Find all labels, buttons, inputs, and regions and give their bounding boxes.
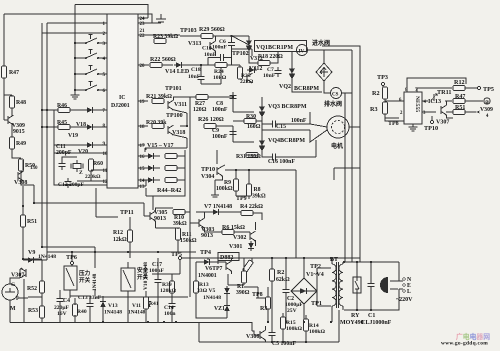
svg-text:R53: R53: [28, 308, 38, 314]
junction dot 37: [282, 341, 284, 343]
svg-text:R44–R42: R44–R42: [157, 187, 181, 194]
wire RY leads: [356, 262, 358, 310]
resistor R47b: [453, 99, 465, 104]
svg-text:R48: R48: [16, 100, 26, 106]
diode V7: [211, 209, 221, 215]
wire pin8 row: [42, 126, 107, 128]
resistor R3a: [383, 102, 388, 114]
transistor V309: [8, 115, 14, 125]
svg-text:R26 120Ω: R26 120Ω: [198, 117, 224, 123]
wire left v308 net: [22, 160, 24, 206]
svg-text:R4 22kΩ: R4 22kΩ: [240, 204, 263, 210]
wire R2a down: [384, 99, 386, 103]
diode V15: [146, 153, 156, 159]
svg-text:TP5: TP5: [483, 86, 494, 93]
svg-text:R12: R12: [454, 79, 465, 86]
svg-text:VZ1: VZ1: [214, 306, 225, 312]
junction dot 14: [356, 309, 358, 311]
svg-text:TP103: TP103: [180, 28, 197, 34]
svg-text:V302: V302: [233, 235, 246, 241]
terminal N: [403, 278, 406, 281]
indicator CS circle: [331, 88, 342, 99]
terminal L: [403, 290, 406, 293]
svg-text:TP4: TP4: [200, 249, 211, 256]
transformer BT: [332, 264, 343, 306]
resistor R44: [165, 154, 177, 159]
svg-text:C16 100nF: C16 100nF: [268, 159, 295, 165]
wire C5 lead: [271, 322, 273, 342]
transistor V311: [168, 100, 174, 110]
wire TP6 net: [70, 252, 72, 298]
resistor R22: [150, 63, 162, 68]
svg-text:C1: C1: [368, 313, 375, 319]
capacitor C4: [56, 295, 63, 305]
svg-text:39kΩ: 39kΩ: [252, 194, 266, 200]
junction dot 19: [127, 251, 129, 253]
svg-text:V14 LED: V14 LED: [165, 69, 190, 75]
ground V304: [211, 193, 219, 197]
resistor R60: [89, 159, 94, 171]
wire left rail: [3, 14, 5, 120]
wire V9 row: [23, 252, 47, 260]
junction dot 16: [330, 321, 332, 323]
svg-text:VQ3 BCR8PM: VQ3 BCR8PM: [268, 104, 307, 110]
wire xfmr net: [332, 258, 343, 322]
svg-text:IV: IV: [299, 50, 305, 55]
svg-text:V312: V312: [250, 56, 263, 62]
resistor R47: [2, 66, 7, 78]
wire rail x42: [42, 23, 95, 247]
svg-text:TP11: TP11: [120, 209, 134, 216]
wire V309 base tap: [4, 119, 8, 121]
wire pin22 row: [138, 34, 180, 36]
wire pin1 lead: [47, 22, 107, 24]
svg-text:TP6: TP6: [66, 254, 77, 261]
transistor V308: [18, 171, 24, 181]
svg-text:10nF: 10nF: [263, 73, 276, 79]
wire motor right: [349, 126, 360, 128]
svg-text:1N4148: 1N4148: [104, 310, 122, 316]
junction dot 23: [248, 169, 250, 171]
resistor R30: [244, 119, 256, 124]
svg-text:Z: Z: [79, 170, 83, 176]
resistor R15: [281, 317, 286, 329]
wire cap to z: [62, 157, 77, 160]
svg-text:TP102: TP102: [232, 51, 249, 57]
wire pin2 lead: [42, 32, 107, 34]
junction dot 40: [22, 205, 24, 207]
mains plug: [380, 277, 398, 301]
svg-text:TP9: TP9: [236, 196, 247, 202]
wire bottom rail2: [199, 310, 339, 342]
wire diode16 out: [156, 155, 160, 157]
svg-text:V7 1N4148: V7 1N4148: [204, 204, 232, 210]
capacitor C11a: [58, 160, 65, 170]
junction dot 18: [94, 251, 96, 253]
diode V301: [248, 241, 254, 251]
wire pin9 row: [54, 144, 107, 146]
resistor R18: [258, 61, 270, 66]
wire S4 taps: [75, 89, 107, 91]
diode V9: [26, 257, 36, 263]
wire res16 out: [177, 155, 185, 157]
resistor R24: [215, 63, 227, 68]
resistor R27: [196, 95, 208, 100]
ground of switch ladder: [71, 92, 80, 99]
junction dot 26: [232, 96, 234, 98]
resistor R12: [453, 86, 465, 91]
resistor R3m: [266, 297, 271, 309]
svg-text:M: M: [10, 306, 16, 312]
wire pin7 row: [42, 109, 107, 111]
junction dot 39: [271, 341, 273, 343]
wire R8 net: [236, 170, 249, 199]
svg-text:R60: R60: [93, 161, 103, 167]
wire V7 row: [196, 212, 262, 220]
capacitor C8: [229, 92, 236, 102]
svg-text:V19: V19: [68, 133, 78, 139]
wire rail x47: [47, 23, 196, 252]
transistor V312b: [247, 73, 253, 83]
wire rail x190: [146, 97, 190, 215]
wire R52 net: [28, 260, 42, 322]
diode V19: [85, 124, 95, 130]
wire power top rail: [182, 257, 360, 259]
capacitor C6: [228, 39, 235, 49]
junction dot 22: [235, 169, 237, 171]
wire S2 taps: [75, 57, 107, 59]
wire V304 net: [215, 150, 296, 258]
svg-text:R2: R2: [372, 90, 380, 97]
wire pin23 lead: [138, 22, 161, 24]
wire TP5m stub: [23, 259, 180, 274]
wire diode14 out: [156, 179, 160, 181]
wire R3a net: [385, 101, 404, 121]
svg-text:1N4148: 1N4148: [128, 310, 146, 316]
junction dot 5: [74, 89, 76, 91]
wire IV to rail: [308, 49, 353, 51]
diode V11: [145, 299, 151, 309]
wire R47b out: [465, 100, 483, 102]
wire R47 to R48: [4, 95, 12, 97]
svg-text:R52: R52: [27, 286, 37, 292]
wire V311 c: [174, 97, 197, 126]
wire R29 row: [180, 36, 249, 38]
test point TP6: [70, 261, 73, 264]
wire pin13 row: [138, 180, 146, 186]
wire rail x34: [34, 185, 144, 216]
wire R9 leads: [235, 170, 237, 196]
svg-text:R51: R51: [455, 105, 465, 111]
wire bridge net: [286, 258, 331, 322]
switch S4: [85, 82, 99, 92]
svg-text:200pF: 200pF: [56, 150, 72, 156]
capacitor C18: [197, 73, 204, 83]
resistor R42: [165, 178, 177, 183]
wire pin15 row: [138, 167, 146, 169]
wire pin12 row: [77, 180, 107, 182]
capacitor C5: [268, 329, 275, 339]
svg-text:TP10: TP10: [424, 125, 438, 132]
svg-text:排水阀: 排水阀: [324, 100, 342, 108]
wire V309 emitter: [11, 108, 13, 138]
wire res15 out: [177, 167, 185, 169]
wire rail x352: [351, 50, 353, 262]
wire v12 col: [94, 247, 96, 296]
wire pin17 row: [138, 144, 145, 146]
transistor V304: [217, 166, 223, 176]
capacitor C9: [229, 128, 236, 138]
wire diamond up: [308, 50, 325, 63]
varistor RY: [353, 277, 361, 293]
capacitor C10: [217, 54, 227, 61]
wire pin24 lead: [138, 17, 148, 19]
junction dot 15: [370, 309, 372, 311]
resistor R2m: [270, 269, 275, 281]
resistor R41: [144, 297, 149, 309]
junction dot 13: [370, 261, 372, 263]
svg-text:100nF: 100nF: [212, 107, 228, 113]
svg-text:C18: C18: [191, 67, 201, 73]
triac VQ4: [259, 138, 265, 154]
wire pin10 row: [54, 152, 107, 154]
svg-text:100kΩ: 100kΩ: [309, 329, 326, 335]
triac VQ1: [246, 38, 252, 54]
junction dot 11: [330, 257, 332, 259]
wire mid rail x190 low: [189, 252, 191, 297]
svg-text:VQ2: VQ2: [279, 84, 291, 90]
wire pin11 row: [91, 170, 107, 181]
wire pin20 row: [138, 64, 149, 66]
bridge rectifier V1~V4: [291, 278, 317, 304]
svg-text:G: G: [11, 282, 16, 288]
svg-text:R23 39kΩ: R23 39kΩ: [153, 34, 178, 40]
svg-text:TP10: TP10: [201, 166, 215, 173]
wire R50 down: [21, 171, 34, 185]
junction dot 30: [102, 321, 104, 323]
wire G net: [10, 269, 28, 323]
svg-text:100n: 100n: [164, 311, 176, 317]
capacitor C14: [168, 300, 175, 310]
svg-text:R47: R47: [455, 94, 465, 100]
capacitor C12: [64, 178, 71, 188]
junction dot 10: [271, 257, 273, 259]
wire VQ3 net: [233, 97, 310, 130]
transistor D882: [226, 261, 232, 271]
svg-text:390Ω: 390Ω: [236, 290, 250, 296]
junction dot 28: [41, 109, 43, 111]
capacitor C15: [269, 120, 279, 127]
svg-text:TP101: TP101: [165, 86, 182, 92]
wire R24 net: [184, 65, 240, 84]
junction dot 8: [303, 257, 305, 259]
resistor R49: [10, 137, 15, 149]
test point TP3: [381, 82, 384, 85]
resistor R46: [58, 108, 70, 113]
thermistor TR11: [431, 94, 437, 100]
capacitor C16: [269, 153, 279, 160]
junction dot 17: [343, 261, 345, 263]
svg-text:9013: 9013: [201, 233, 213, 239]
svg-text:R51: R51: [27, 219, 37, 225]
diode V14 LED: [174, 62, 184, 68]
svg-text:VQ1BCR1PM: VQ1BCR1PM: [256, 45, 293, 51]
svg-text:IC13: IC13: [428, 98, 441, 105]
wire pin19 row: [138, 100, 148, 102]
svg-text:R12: R12: [113, 230, 123, 236]
svg-text:220kΩ: 220kΩ: [85, 174, 101, 180]
wire pin14 row: [138, 179, 146, 181]
wire TP3 down: [382, 86, 384, 88]
junction dot 6: [22, 258, 24, 260]
svg-text:V1~V4: V1~V4: [306, 272, 324, 278]
wire R26 out: [145, 126, 233, 148]
junction dot 34: [267, 321, 269, 323]
svg-text:V313: V313: [188, 41, 201, 47]
diode VZ1: [224, 303, 230, 313]
svg-text:100kΩ: 100kΩ: [216, 186, 233, 192]
svg-text:VQ4BCR8PM: VQ4BCR8PM: [268, 138, 305, 144]
safety switch blade: [123, 270, 131, 288]
junction dot 3: [74, 57, 76, 59]
resistor R2a: [383, 87, 388, 99]
svg-text:RY: RY: [351, 313, 360, 319]
diode V6: [202, 259, 212, 265]
transistor V318: [168, 125, 174, 135]
svg-text:R3: R3: [370, 106, 378, 113]
wire S3 taps: [75, 73, 107, 75]
resistor R12m: [128, 230, 133, 242]
resistor R45: [58, 125, 70, 130]
resistor R51b: [453, 110, 465, 115]
wire mid long1: [95, 188, 97, 217]
svg-text:39kΩ: 39kΩ: [173, 221, 187, 227]
svg-text:TP8: TP8: [252, 292, 263, 298]
frame valve box: [322, 46, 360, 180]
switch S3: [85, 66, 99, 76]
junction dot 29: [41, 126, 43, 128]
junction dot 2: [74, 42, 76, 44]
drain valve actuator diamond: [316, 63, 332, 81]
resistor R8: [247, 184, 252, 196]
diode V13: [100, 299, 106, 309]
junction dot 7: [41, 246, 43, 248]
safety switch box: [121, 268, 135, 291]
junction dot 0: [46, 109, 48, 111]
wire V305 net: [144, 208, 190, 252]
terminal V309 arrow: [476, 111, 480, 114]
svg-text:120kΩ: 120kΩ: [160, 288, 177, 294]
wire safety nets: [128, 258, 180, 322]
svg-text:R47: R47: [9, 70, 19, 76]
wire top rail upper: [75, 5, 148, 19]
junction dot 9: [285, 257, 287, 259]
resistor R53: [40, 306, 45, 318]
diode V17: [146, 177, 156, 183]
svg-text:R3: R3: [260, 306, 267, 312]
svg-text:V311: V311: [174, 102, 187, 108]
svg-text:开关: 开关: [79, 276, 91, 284]
transistor V307: [21, 268, 27, 278]
svg-text:62kΩ: 62kΩ: [276, 277, 290, 283]
svg-text:R6 15kΩ: R6 15kΩ: [222, 225, 245, 231]
wire R12m down: [129, 217, 131, 258]
svg-text:TP100: TP100: [166, 113, 183, 119]
svg-text:150kΩ: 150kΩ: [180, 238, 197, 244]
diode V20: [85, 142, 95, 148]
svg-text:12kΩ: 12kΩ: [113, 237, 127, 243]
box VQ1 label: [255, 41, 307, 52]
resistor R9: [234, 179, 239, 191]
wire VQ2 net: [292, 52, 322, 92]
resistor R50: [19, 159, 24, 171]
svg-text:V11: V11: [132, 303, 141, 309]
wire V303 net: [190, 212, 256, 246]
svg-text:R30: R30: [246, 114, 256, 120]
op-amp U1 IC DJ2001 body: [107, 14, 138, 188]
svg-text:TP3: TP3: [377, 74, 388, 81]
transistor V305: [150, 211, 156, 221]
triac VQ2: [289, 66, 295, 82]
crystal Z: [71, 160, 83, 172]
IC NE555 body: [404, 92, 422, 124]
svg-text:C4: C4: [63, 298, 70, 304]
pressure switch blade: [66, 268, 74, 286]
wire motor left: [310, 112, 327, 157]
wire R22 to V14: [162, 64, 173, 66]
wire pin18 row: [138, 125, 148, 127]
svg-text:V20: V20: [78, 149, 88, 155]
svg-text:160Ω: 160Ω: [247, 124, 261, 130]
svg-text:R2: R2: [277, 270, 284, 276]
svg-text:V9: V9: [28, 250, 35, 256]
resistor R48: [10, 96, 15, 108]
resistor R4: [241, 211, 253, 216]
wire c6 net: [208, 36, 252, 65]
wire VQ4 net: [233, 126, 316, 157]
terminal IC2: [484, 98, 490, 104]
resistor R40: [73, 304, 78, 316]
wire diode15 out: [156, 167, 160, 169]
junction dot 20: [157, 251, 159, 253]
wire 555 pin3: [422, 106, 436, 112]
capacitor C17: [154, 276, 161, 286]
junction dot 27: [186, 125, 188, 127]
wire sec top rail: [344, 261, 399, 263]
transistor V307b: [441, 105, 447, 115]
svg-text:1N4001: 1N4001: [198, 273, 217, 279]
svg-text:R45: R45: [57, 120, 67, 126]
diode V312: [247, 67, 257, 73]
indicator IV circle: [297, 45, 308, 56]
capacitor C2: [282, 286, 289, 296]
wire R51b net: [446, 101, 476, 118]
svg-text:DJ2001: DJ2001: [111, 103, 130, 109]
test point TP5: [477, 86, 480, 89]
svg-text:100kΩ: 100kΩ: [286, 326, 303, 332]
svg-text:10kΩ: 10kΩ: [213, 75, 227, 81]
svg-text:120Ω: 120Ω: [193, 107, 207, 113]
wire R18 net: [249, 52, 278, 63]
junction dot 1: [46, 126, 48, 128]
svg-text:R8: R8: [254, 187, 261, 193]
svg-text:100nF: 100nF: [212, 134, 228, 140]
wire v306 net: [95, 297, 266, 342]
resistor R29: [201, 34, 213, 39]
capacitor C1: [367, 280, 374, 290]
wire d882 net: [196, 258, 244, 285]
svg-text:BCR8PM: BCR8PM: [294, 86, 319, 92]
